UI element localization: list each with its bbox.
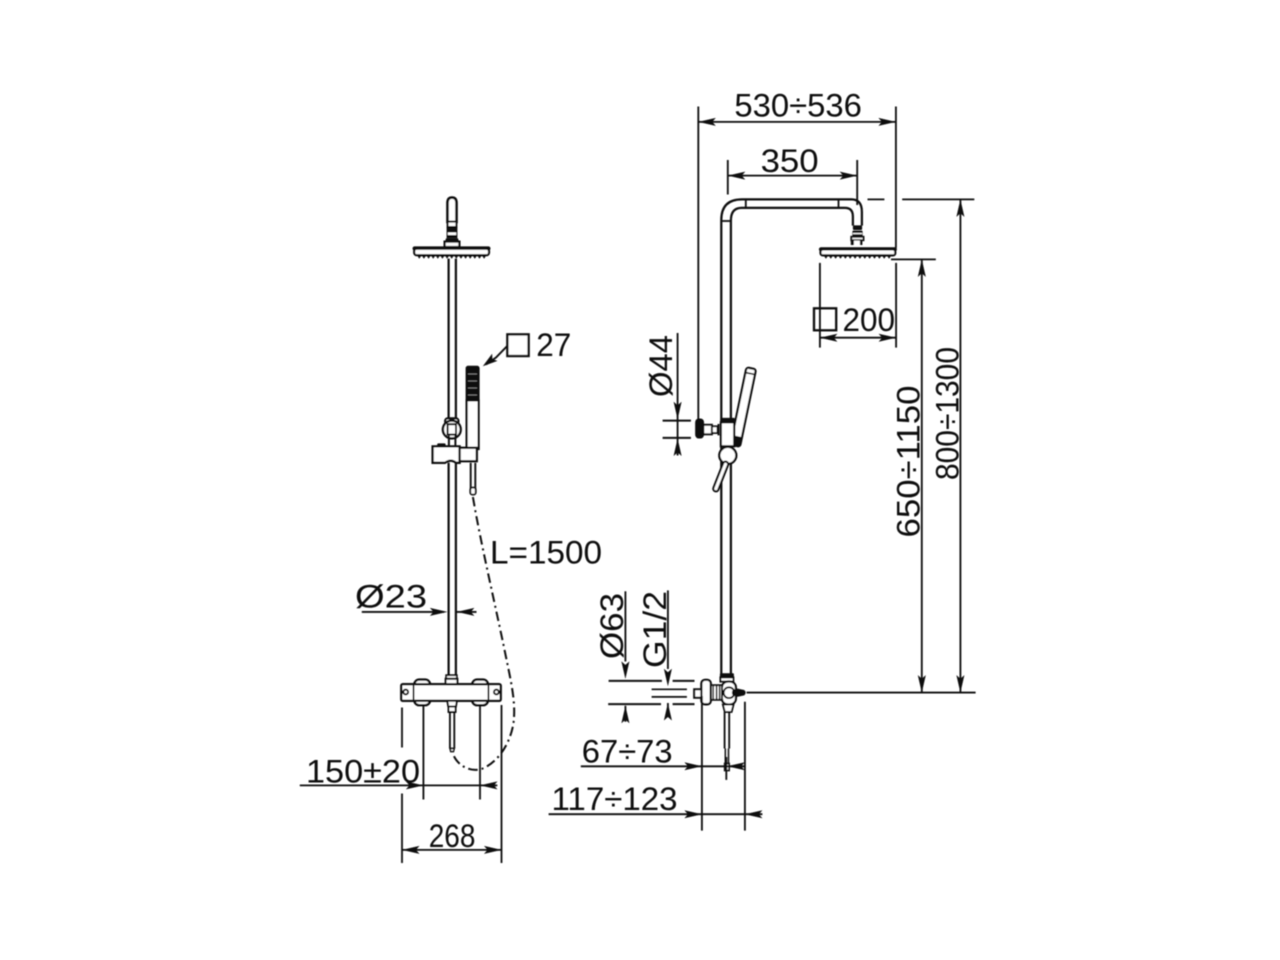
front view: hand shower head (hatched) (467, 367, 479, 401)
svg-text:117÷123: 117÷123 (552, 781, 678, 817)
side view: valve top collar (720, 673, 734, 677)
front view: bracket right block (wand holder) (460, 448, 477, 461)
dimension 350 line and arrows (728, 175, 857, 177)
dimension Ø63 leader line (624, 591, 626, 661)
extension line 200 left (819, 263, 821, 348)
dimension 800÷1300 line and arrows (959, 199, 961, 692)
side view: hand shower wand (730, 367, 756, 447)
front view: shower head mount block (445, 242, 460, 247)
dimension 650÷1150 line and arrows (921, 259, 923, 692)
side view: joint tick on riser (721, 220, 731, 222)
front view: shower disc nozzle serration (417, 255, 486, 258)
side view: holder ridged coupling (718, 424, 727, 435)
side view: outlet reference line (747, 692, 976, 694)
extension line mixer far-right (501, 705, 503, 863)
svg-text:L=1500: L=1500 (490, 535, 602, 571)
svg-text:800÷1300: 800÷1300 (929, 347, 965, 480)
front view: mixer left end cap detail (413, 685, 415, 700)
side view: valve wall stub (694, 689, 701, 697)
dimension 150±20 line and arrows (300, 784, 498, 786)
front view: overhead shower disc rim (413, 246, 491, 250)
side view: diverter lever (713, 461, 729, 492)
svg-text:200: 200 (843, 302, 896, 338)
front view: bracket dark tab (437, 443, 445, 447)
extension line 67÷73 left (701, 696, 703, 831)
extension line 117÷123 right (744, 702, 746, 831)
front view: hand shower handle (467, 400, 479, 449)
svg-text:350: 350 (761, 143, 819, 179)
extension line mixer right knob centre (479, 706, 481, 800)
side view: bracket body (721, 422, 734, 446)
front view: hand shower hose nipple (470, 463, 472, 489)
front view: mixer outlet rod (449, 712, 451, 748)
side view: bracket collar dark (720, 418, 735, 423)
flange reference bars (609, 680, 662, 682)
front view: mixer inlet collar (446, 675, 457, 679)
svg-text:Ø44: Ø44 (643, 335, 679, 397)
svg-text:268: 268 (429, 818, 476, 854)
svg-text:67÷73: 67÷73 (582, 733, 673, 769)
side view: shower disc nozzle serration (824, 255, 892, 258)
dimension 530÷536 line and arrows (698, 121, 896, 123)
dimension Ø63 arrows (621, 661, 629, 679)
dimension Ø44 reference bars (663, 420, 691, 422)
dimension G1/2 arrows (664, 669, 672, 687)
front view: riser pipe upper segment (448, 259, 450, 420)
svg-text:650÷1150: 650÷1150 (890, 386, 926, 538)
front view: riser top cap (448, 198, 457, 222)
extension line 350 right (856, 160, 858, 205)
extension line 530÷536 left (knob face) (697, 107, 699, 420)
side view: joint tick on arm right (838, 199, 840, 208)
front view: slider ball joint (443, 421, 461, 439)
front view: riser top joint rings (448, 222, 457, 227)
front view: slider bracket left block (433, 446, 460, 462)
thread reference bars (652, 688, 687, 690)
dimension 67÷73 line and arrows (581, 765, 745, 767)
front view: mixer outlet trapezoid (447, 701, 457, 707)
extension line 530÷536 right (wall plane) (895, 107, 897, 249)
dimension 200 line and arrows (820, 337, 896, 339)
side view: valve left shaft with ridges (710, 685, 722, 700)
svg-text:G1/2: G1/2 (637, 591, 673, 668)
extension line mixer far-left (401, 708, 403, 748)
svg-text:Ø63: Ø63 (594, 593, 630, 659)
side view: overhead shower disc body (821, 249, 896, 255)
side view: valve outlet cone (736, 688, 746, 697)
dimension 268 line and arrows (402, 849, 502, 851)
side view: ball joint (719, 447, 736, 464)
dimension 117÷123 line and arrows (549, 813, 763, 815)
svg-text:Ø23: Ø23 (355, 579, 427, 615)
extension line head face level (891, 258, 936, 260)
side view: valve lower trapezoid (723, 705, 734, 712)
svg-text:27: 27 (536, 327, 571, 363)
label 27 square symbol (507, 334, 528, 356)
side view: valve knob bar (701, 680, 710, 704)
side view: head stem (851, 240, 863, 245)
front view: flexible hose L=1500 (dash-dot) (453, 497, 515, 770)
front view: riser pipe lower segment (448, 463, 450, 676)
side view: valve body (722, 682, 736, 705)
label 27 leader arrow (486, 346, 507, 365)
front view: overhead shower disc body (414, 249, 489, 256)
side view: holder knob end (696, 419, 703, 438)
svg-text:530÷536: 530÷536 (734, 88, 862, 124)
front view: mixer body (401, 684, 500, 701)
dimension Ø44 arrows (674, 402, 682, 420)
front view: mixer left knob (414, 680, 430, 706)
front view: mixer right end cap detail (487, 685, 489, 700)
dimension Ø44 leader line (677, 333, 679, 438)
extension line 350 left (727, 160, 729, 195)
extension line pipe centre below valve (725, 757, 727, 780)
side view: riser and overhead arm outer contour (721, 199, 862, 675)
extension line arm top level (868, 198, 885, 200)
side view: head swivel joint bands (853, 225, 862, 230)
extension line 200 right (895, 263, 897, 348)
dimension G1/2 leader line (667, 590, 669, 669)
dimension 200 square symbol (814, 308, 836, 330)
dimension Ø23 leader and arrows (362, 611, 444, 613)
front view: slider collar (445, 418, 458, 424)
side view: holder shaft (703, 425, 712, 435)
side view: overhead shower disc rim (819, 247, 897, 251)
side view: riser and overhead arm inner contour (731, 208, 853, 676)
side view: joint tick on arm left (745, 199, 747, 208)
svg-text:150±20: 150±20 (306, 753, 420, 789)
front view: tube below ball joint (448, 435, 450, 447)
extension line mixer left knob centre (422, 706, 424, 800)
side view: valve lower rod (724, 712, 726, 749)
front view: mixer right knob (472, 680, 488, 706)
